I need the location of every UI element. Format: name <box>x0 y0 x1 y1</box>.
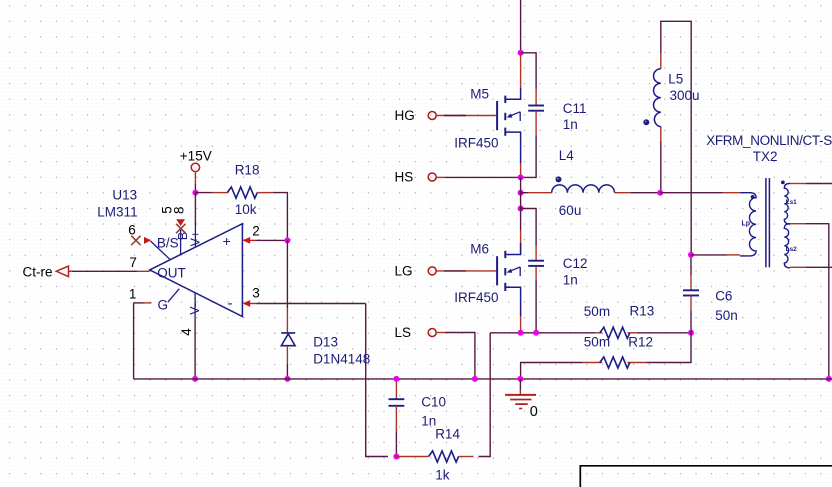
junction C12 on R13 row <box>533 330 539 336</box>
pin 6 no-connect X <box>131 236 140 245</box>
svg-text:Ct-re: Ct-re <box>23 264 53 279</box>
svg-text:+: + <box>223 233 231 249</box>
wire R18 left <box>195 192 212 194</box>
svg-text:R14: R14 <box>435 426 460 441</box>
pin 6 stub <box>151 241 170 259</box>
capacitor C12 <box>528 260 544 262</box>
transformer TX2 primary coil Lp <box>740 193 756 256</box>
inductor L5 coil <box>654 69 661 127</box>
junction R13/C6/R12 <box>688 330 694 336</box>
svg-text:LG: LG <box>395 264 413 279</box>
transistor M5 body arrow <box>508 112 520 117</box>
svg-text:50m: 50m <box>584 334 610 349</box>
inductor L4 phase dot <box>556 176 562 182</box>
transistor M5 gate bar <box>496 101 498 130</box>
wire R12 row left <box>521 363 583 379</box>
ground symbol bars <box>505 394 536 396</box>
capacitor C6 <box>683 289 699 291</box>
pin 7 lead <box>137 270 150 272</box>
wire net from top edge to M5 drain node <box>520 0 522 53</box>
wire M5 drain lead <box>520 53 522 88</box>
svg-text:1n: 1n <box>421 413 436 428</box>
transistor M5 channel bars <box>504 96 506 103</box>
svg-text:300u: 300u <box>670 88 700 103</box>
wire R13 right <box>637 332 691 334</box>
pin 1 stub <box>168 289 180 303</box>
port HG <box>428 112 436 120</box>
wire C12 top lead red <box>535 246 537 261</box>
wire M6 drain lead <box>520 230 522 255</box>
junction switch node HS <box>518 174 524 180</box>
svg-text:8: 8 <box>171 206 186 214</box>
pin 2 lead <box>248 239 256 241</box>
svg-text:R18: R18 <box>235 163 260 178</box>
hierarchy block border <box>580 466 832 487</box>
junction switch node L4 <box>518 190 524 196</box>
svg-text:LS: LS <box>395 325 412 340</box>
pin 5 no-connect X <box>176 224 185 233</box>
transistor M6 body arrow <box>508 267 520 272</box>
junction C10 top <box>393 376 399 382</box>
resistor R18 <box>227 187 257 198</box>
transistor M6 channel bars <box>504 251 506 258</box>
svg-text:IRF450: IRF450 <box>454 136 498 151</box>
transistor M6 drain stroke <box>505 243 520 255</box>
transistor M5 source stroke <box>505 132 520 163</box>
junction pin2 / R18 / D13 <box>284 237 290 243</box>
wire R18-D13 vertical <box>286 240 288 308</box>
wire ground rail <box>134 378 832 380</box>
wire M6 source lead <box>520 316 522 333</box>
svg-text:Lp: Lp <box>742 221 751 228</box>
wire LG to M6 gate <box>436 270 466 272</box>
wire L5 top loop <box>660 141 662 193</box>
wire C11 bottom lead <box>535 111 537 136</box>
svg-text:4: 4 <box>179 328 194 336</box>
power +15V symbol <box>191 163 199 171</box>
svg-text:R12: R12 <box>628 334 653 349</box>
svg-text:-: - <box>228 295 233 312</box>
capacitor C11 <box>528 105 544 107</box>
svg-text:C12: C12 <box>563 256 588 271</box>
svg-text:TX2: TX2 <box>753 149 778 164</box>
wire C6 bottom lead <box>690 296 692 312</box>
junction C6 primary node <box>688 252 694 258</box>
svg-text:Ls2: Ls2 <box>786 246 798 253</box>
wire D13 bottom lead <box>286 346 288 364</box>
wire HS to switch node <box>436 176 445 178</box>
wire C6 top lead <box>690 255 692 275</box>
svg-text:M5: M5 <box>470 86 489 101</box>
svg-text:M6: M6 <box>470 242 489 257</box>
pin 3 lead <box>248 303 256 305</box>
svg-text:3: 3 <box>252 286 260 301</box>
junction M6 source on R13 row <box>518 330 524 336</box>
svg-text:10k: 10k <box>235 202 257 217</box>
wire switch node vertical <box>520 177 522 230</box>
resistor R14 <box>429 451 459 462</box>
junction center tap on ground rail <box>826 376 832 382</box>
wire R13 row left <box>490 332 595 334</box>
svg-text:HG: HG <box>395 108 415 123</box>
junction C10 / R14 / pin3 branch <box>393 454 399 460</box>
pin 1 lead <box>134 302 144 304</box>
transformer TX2 primary phase dot <box>751 195 755 199</box>
transistor M5 drain stroke <box>505 88 520 99</box>
wire D13 top lead <box>286 308 288 333</box>
wire C11 top branch <box>521 53 537 89</box>
inductor L4 coil <box>552 185 615 193</box>
junction ground symbol <box>517 376 523 382</box>
wire C12 top branch <box>521 209 537 247</box>
svg-text:HS: HS <box>395 170 414 185</box>
pin 5 stub <box>180 230 182 255</box>
svg-text:C11: C11 <box>563 101 587 116</box>
resistor R13 leads <box>595 332 602 334</box>
wire L4 right lead <box>615 192 631 194</box>
op-amp U13 triangle <box>150 224 243 317</box>
junction LS on rail <box>472 376 478 382</box>
wire C10 top lead <box>395 381 397 399</box>
svg-text:OUT: OUT <box>157 266 186 281</box>
transistor M6 gate bar <box>496 256 498 285</box>
wire primary top lead <box>660 192 723 194</box>
pin 8 lead <box>194 193 196 225</box>
junction D13 ground rail <box>284 376 290 382</box>
svg-text:6: 6 <box>128 223 136 238</box>
junction switch node M6 drain <box>518 206 524 212</box>
inductor L5 phase dot <box>643 119 649 125</box>
junction pin 4 ground rail <box>192 376 198 382</box>
svg-text:L4: L4 <box>559 148 575 163</box>
svg-text:60u: 60u <box>559 203 582 218</box>
port LG <box>428 267 436 275</box>
wire C11 top lead red <box>535 89 537 106</box>
transformer TX2 core <box>765 178 767 267</box>
resistor R13 <box>600 327 630 338</box>
resistor R14 leads <box>396 456 428 458</box>
wire secondary center tap <box>790 223 806 225</box>
pin 5 arrow <box>176 219 185 226</box>
svg-text:C6: C6 <box>715 289 732 304</box>
svg-text:+15V: +15V <box>180 148 212 163</box>
junction M5 drain / C11 top <box>518 50 524 56</box>
svg-text:0: 0 <box>530 404 538 420</box>
transformer TX2 secondary phase dot <box>781 181 785 185</box>
wire M5 source lead <box>520 163 522 177</box>
svg-text:C10: C10 <box>421 395 446 410</box>
inductor L5 leads <box>660 53 662 69</box>
port HS <box>428 173 436 181</box>
wire LS down to ground rail <box>436 332 445 334</box>
diode D13 <box>281 333 295 346</box>
svg-text:LM311: LM311 <box>97 204 137 219</box>
svg-text:1n: 1n <box>563 117 578 132</box>
wire primary bottom lead <box>726 254 740 256</box>
transformer TX2 secondary coil Ls2 <box>784 224 790 268</box>
resistor R12 leads <box>583 362 602 364</box>
wire C12 bottom lead <box>535 266 537 280</box>
svg-text:2: 2 <box>252 223 260 238</box>
svg-text:L5: L5 <box>668 72 683 87</box>
capacitor C10 <box>389 398 405 400</box>
svg-text:50n: 50n <box>715 308 738 323</box>
svg-text:D13: D13 <box>313 334 338 349</box>
svg-text:G: G <box>158 298 169 313</box>
resistor R12 <box>600 357 630 368</box>
port LS <box>428 329 436 337</box>
pin 2 arrow <box>242 237 250 244</box>
pin 6 arrow <box>144 237 151 244</box>
svg-text:Ls1: Ls1 <box>786 199 798 206</box>
svg-text:1n: 1n <box>563 272 578 287</box>
wire pin1 down <box>133 303 135 379</box>
inductor L4 left lead <box>521 192 528 194</box>
transformer TX2 secondary coil Ls1 <box>784 184 790 225</box>
wire secondary bottom <box>790 266 806 268</box>
svg-text:XFRM_NONLIN/CT-SEC: XFRM_NONLIN/CT-SEC <box>706 133 832 148</box>
junction L5 bottom <box>657 190 663 196</box>
wire L5 top loop2 <box>661 21 691 255</box>
wire R18 right <box>257 192 273 194</box>
wire C10 bottom lead <box>395 406 397 432</box>
transistor M6 source stroke <box>505 287 520 316</box>
svg-text:7: 7 <box>129 255 137 270</box>
junction +15V / R18 <box>192 190 198 196</box>
ground symbol lead <box>519 379 521 390</box>
svg-text:IRF450: IRF450 <box>454 290 498 305</box>
port Ct-re <box>56 266 71 277</box>
pin 4 lead <box>194 293 196 318</box>
svg-text:1: 1 <box>129 286 137 301</box>
svg-text:50m: 50m <box>584 304 610 319</box>
wire R14 right up to R13 row <box>479 333 491 457</box>
wire R12 right <box>647 333 691 363</box>
svg-text:U13: U13 <box>112 188 137 203</box>
svg-text:R13: R13 <box>630 304 655 319</box>
wire HG to M5 gate <box>436 115 466 117</box>
svg-text:D1N4148: D1N4148 <box>313 352 370 367</box>
wire pin3 to R14 node <box>366 304 388 457</box>
pin 3 arrow <box>242 300 250 307</box>
wire secondary top <box>790 183 806 185</box>
wire +15V lead <box>194 172 196 184</box>
svg-text:1k: 1k <box>435 468 450 483</box>
